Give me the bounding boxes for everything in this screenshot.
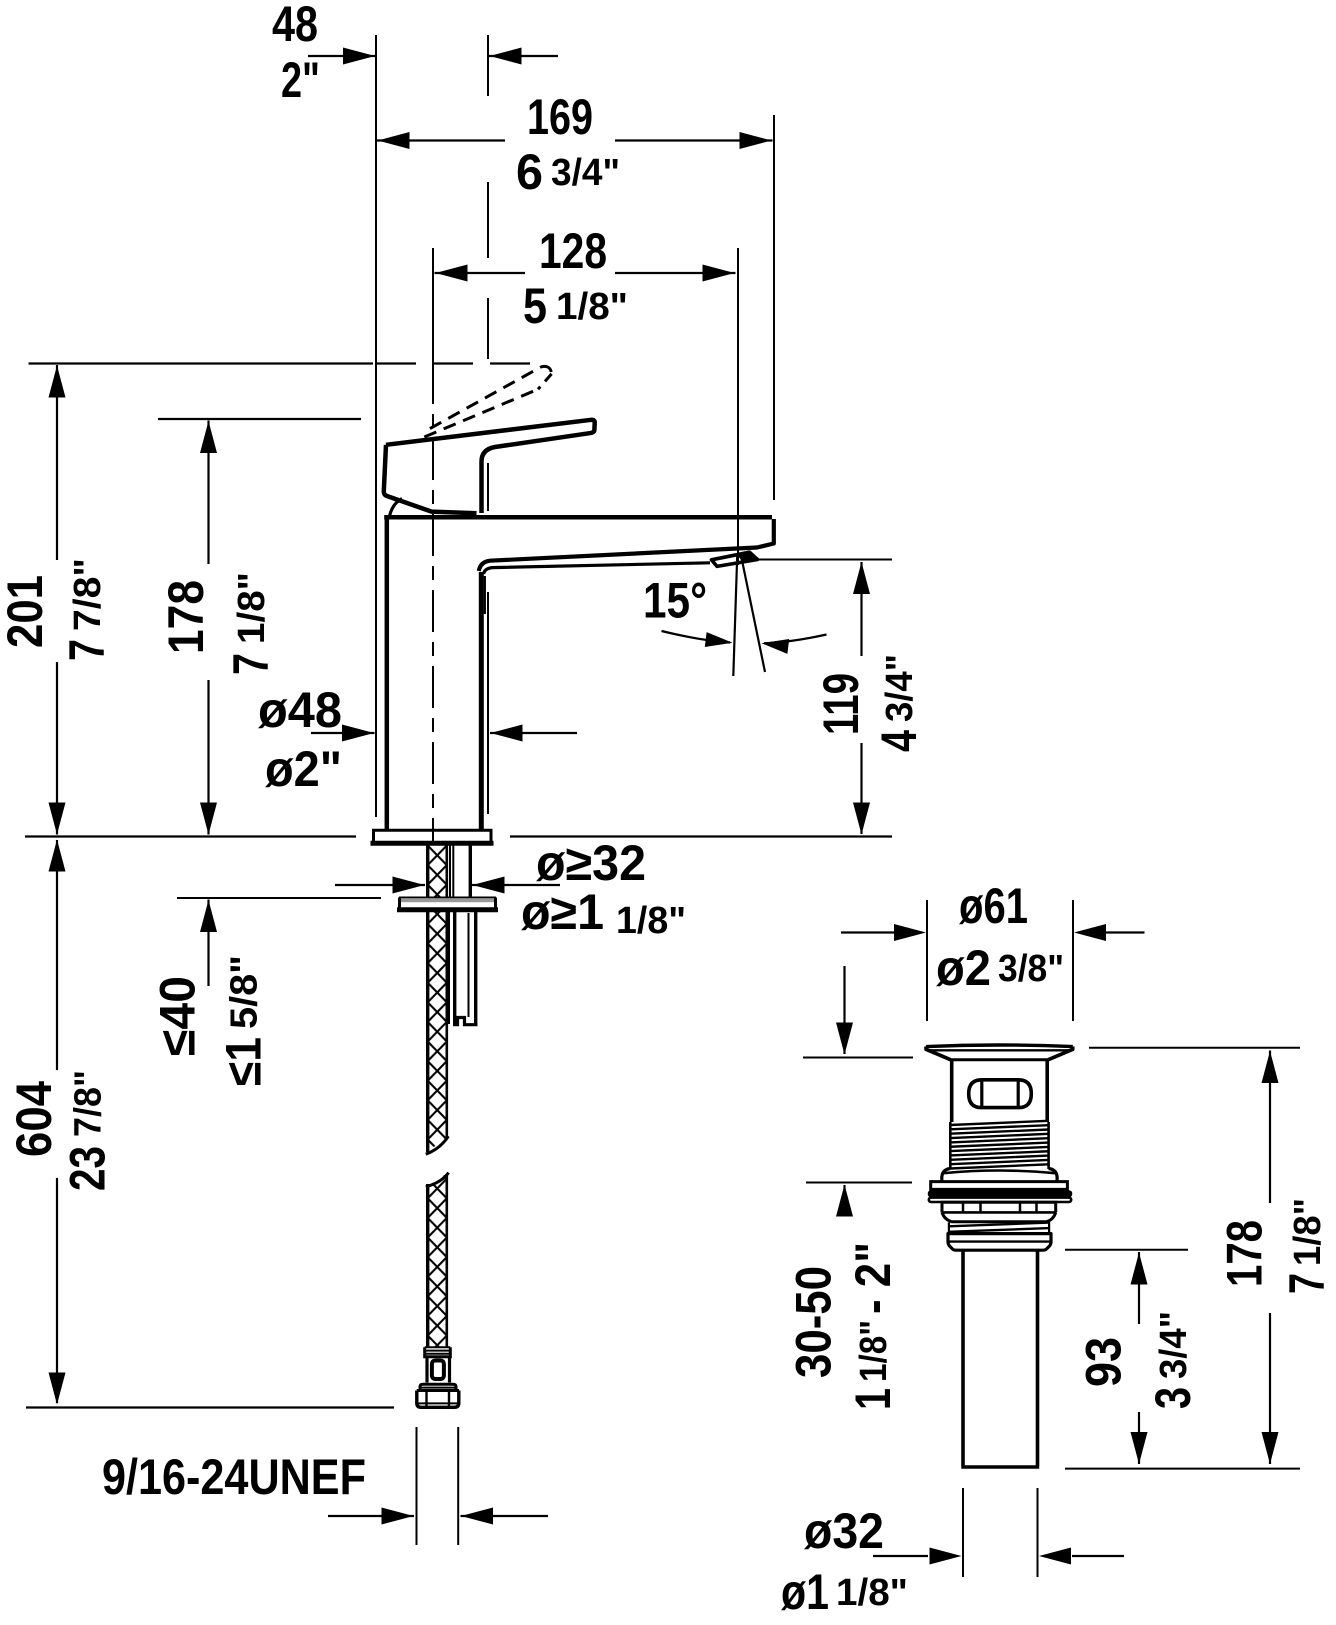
svg-text:43/4": 43/4" <box>871 654 927 752</box>
dimension 119 / 4 3/4in (spout height) <box>745 560 927 835</box>
svg-text:48: 48 <box>272 0 318 52</box>
dimension 9/16-24UNEF thread <box>102 1427 548 1545</box>
dimension max 40 / 1 5/8in (deck thickness) <box>150 898 382 1086</box>
drain locknut <box>942 1202 1056 1222</box>
drain overflow window <box>969 1080 1032 1108</box>
spout aerator tip <box>712 552 758 566</box>
svg-text:ø48: ø48 <box>258 682 342 738</box>
bottom reference line at hose nut <box>26 1406 394 1408</box>
svg-text:93: 93 <box>1076 1337 1132 1387</box>
drain barrel <box>952 1060 1047 1122</box>
countertop deck line <box>25 835 892 837</box>
hose connector body <box>427 1357 450 1383</box>
svg-text:169: 169 <box>527 89 593 145</box>
svg-text:128: 128 <box>539 223 607 279</box>
dimension 178 / 7 1/8in (drain height) <box>1065 1048 1335 1469</box>
svg-text:ø32: ø32 <box>804 1503 884 1559</box>
svg-text:178: 178 <box>158 580 214 654</box>
svg-text:≤15/8": ≤15/8" <box>216 955 272 1086</box>
svg-text:119: 119 <box>813 673 869 735</box>
dimension 201 / 7 7/8in (left) <box>0 364 530 835</box>
svg-text:237/8": 237/8" <box>60 1070 116 1191</box>
horseshoe washer and nut <box>397 897 498 911</box>
svg-text:ø23/8": ø23/8" <box>936 940 1064 996</box>
dimension 30-50 / 1 1/8in-2in (drain mounting range) <box>786 966 914 1410</box>
svg-text:9/16-24UNEF: 9/16-24UNEF <box>102 1449 366 1505</box>
hose coupling nut 9/16-24UNEF <box>417 1384 459 1407</box>
svg-text:ø2": ø2" <box>265 741 342 797</box>
drain lower collar <box>948 1234 1051 1251</box>
dimension 169 / 6 3/4in <box>377 89 775 500</box>
svg-text:33/4": 33/4" <box>1145 1311 1201 1409</box>
dimension diameter 61 / 2 3/8in (drain flange) <box>841 878 1145 1021</box>
faucet handle (rest position) <box>384 420 595 517</box>
drain exposed threads below nut <box>949 1222 1050 1234</box>
dimension 128 / 5 1/8in <box>435 223 739 565</box>
dimension 604 / 23 7/8in (left tall) <box>6 840 116 1405</box>
dimension hole diameter >=32 / 1 1/8in <box>335 835 686 942</box>
supply hose (braided, upper run) <box>426 846 449 1155</box>
drain lower plate <box>929 1198 1071 1202</box>
faucet base flange <box>371 830 494 843</box>
faucet handle raised (dashed) <box>424 366 551 437</box>
svg-text:201: 201 <box>0 575 53 648</box>
svg-text:604: 604 <box>6 1081 62 1157</box>
svg-text:30-50: 30-50 <box>786 1266 842 1378</box>
supply hose (lower run with break) <box>426 1173 449 1347</box>
svg-text:≤40: ≤40 <box>150 976 206 1056</box>
mounting stud (above washer) <box>450 846 470 898</box>
node: centerline of faucet body x=433 <box>432 248 434 845</box>
wire: rear extension line x=376 <box>375 35 377 817</box>
drain threaded section <box>950 1121 1048 1169</box>
svg-text:63/4": 63/4" <box>516 144 620 200</box>
svg-text:15°: 15° <box>643 573 707 629</box>
drain upper flange plate <box>931 1182 1068 1190</box>
svg-text:51/8": 51/8" <box>523 278 628 334</box>
svg-text:ø11/8": ø11/8" <box>781 1564 908 1620</box>
supply hose (through washer, lower) <box>428 912 447 1137</box>
faucet body column <box>384 517 772 830</box>
dimension 15 degrees (spout angle) <box>643 553 827 676</box>
dimension 48 / 2in (top) <box>272 0 558 108</box>
svg-text:ø≥32: ø≥32 <box>536 835 646 891</box>
wire: front extension line x=488 (segments) <box>487 35 489 814</box>
drain flange (top) <box>926 1045 1073 1060</box>
svg-text:77/8": 77/8" <box>59 558 115 661</box>
mounting stud (below washer) <box>449 912 478 1025</box>
svg-text:71/8": 71/8" <box>1279 1198 1335 1294</box>
drain tailpiece <box>961 1251 1039 1468</box>
drain rubber gasket (black band) <box>928 1190 1072 1197</box>
svg-text:71/8": 71/8" <box>223 572 279 675</box>
svg-text:ø≥11/8": ø≥11/8" <box>521 884 686 942</box>
dimension 93 / 3 3/4in (tailpiece) <box>1065 1250 1201 1464</box>
drain shoulder bulge <box>942 1169 1057 1182</box>
svg-text:ø61: ø61 <box>959 878 1028 934</box>
svg-text:11/8"- 2": 11/8"- 2" <box>845 1242 901 1410</box>
faucet spout <box>479 519 774 574</box>
dimension diameter 48 / 2in (body) <box>258 682 577 797</box>
dimension diameter 32 / 1 1/8in (tailpiece dia) <box>781 1488 1124 1620</box>
hose end ferrule <box>425 1347 451 1357</box>
svg-text:2": 2" <box>281 52 320 108</box>
dimension 178 / 7 1/8in (left) <box>158 419 361 835</box>
svg-text:178: 178 <box>1217 1220 1273 1287</box>
